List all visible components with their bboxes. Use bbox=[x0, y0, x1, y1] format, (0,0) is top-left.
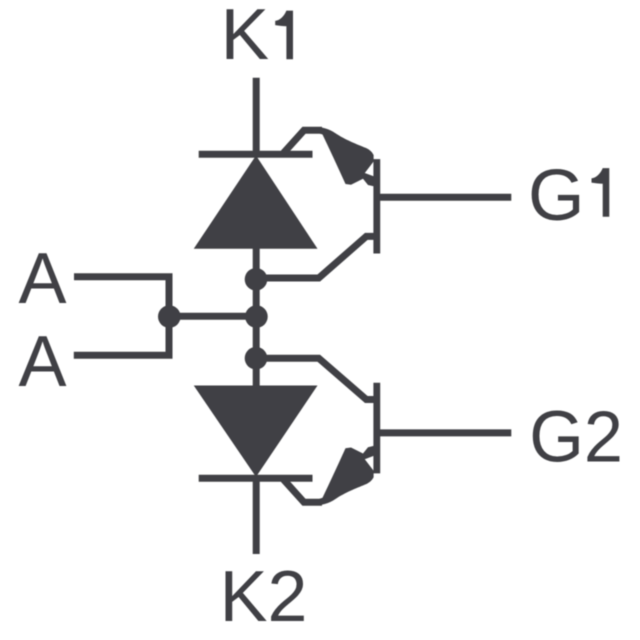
thyristor SCR2 triangle bbox=[194, 386, 318, 477]
thyristor SCR1 cathode bar bbox=[199, 151, 313, 158]
svg-text:K2: K2 bbox=[220, 556, 308, 637]
thyristor SCR1 triangle bbox=[194, 156, 318, 249]
wire G1 lead bbox=[380, 194, 511, 201]
thyristor SCR2 cathode bar bbox=[199, 475, 313, 482]
wire A terminals loop bbox=[74, 277, 169, 356]
svg-text:A: A bbox=[19, 238, 68, 319]
svg-text:G2: G2 bbox=[529, 396, 623, 477]
svg-text:K: K bbox=[221, 0, 269, 75]
gate bar G1 bbox=[373, 159, 380, 253]
wire K2 lead bbox=[253, 478, 260, 554]
junction node A bbox=[158, 305, 181, 328]
gate arrow SCR1 (curved shaft + barbed head) bbox=[320, 127, 374, 186]
wire A junction to center bbox=[169, 313, 256, 320]
junction node SCR2 anode bbox=[245, 347, 268, 370]
gate arrow SCR2 (curved shaft + barbed head) bbox=[320, 446, 374, 505]
wire SCR2 anode to gate-bar upper branch bbox=[256, 358, 374, 399]
svg-text:G: G bbox=[528, 155, 585, 236]
junction node center bbox=[245, 305, 268, 328]
wire K1 lead bbox=[253, 78, 260, 155]
wire SCR1 anode to gate-bar lower branch bbox=[256, 236, 374, 278]
junction node SCR1 anode bbox=[245, 268, 268, 291]
svg-text:A: A bbox=[19, 321, 68, 402]
wire center vertical (SCR1 anode to SCR2 anode) bbox=[253, 247, 260, 387]
terminal label G1 digit 1 bbox=[592, 168, 610, 217]
terminal label K1 digit 1 bbox=[275, 11, 293, 60]
gate bar G2 bbox=[373, 383, 380, 474]
gate hat SCR2 (diagonal + bottom segment) bbox=[284, 480, 323, 503]
wire G2 lead bbox=[380, 429, 511, 436]
gate hat SCR1 (diagonal + top segment) bbox=[284, 130, 323, 153]
